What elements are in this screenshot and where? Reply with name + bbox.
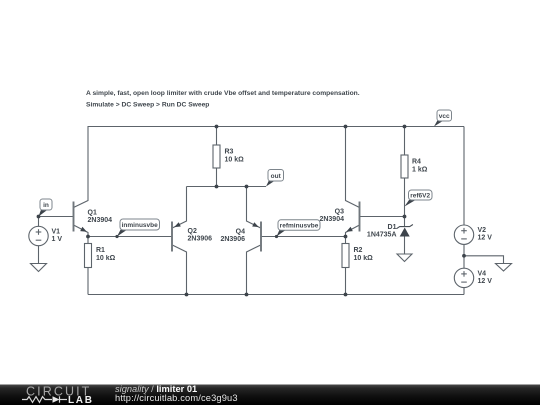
voltage source V4 (454, 268, 473, 287)
wire mid supply to ground (464, 256, 504, 264)
wire V2 top drop (463, 127, 465, 226)
wire Q4 collector (247, 245, 261, 294)
node R3 bottom rail (215, 185, 219, 189)
svg-text:2N3904: 2N3904 (319, 216, 344, 223)
node Q4 emitter rail (245, 185, 249, 189)
wire V1 bottom (38, 246, 40, 264)
svg-text:Simulate > DC Sweep > Run DC S: Simulate > DC Sweep > Run DC Sweep (86, 102, 209, 109)
svg-text:LAB: LAB (68, 395, 94, 405)
wire bottom rail (88, 294, 464, 296)
transistor Q3 (346, 202, 359, 232)
transistor Q2 (172, 222, 181, 252)
svg-text:out: out (271, 173, 282, 180)
node label out (266, 170, 284, 187)
voltage source V1 (29, 226, 48, 245)
label R3 10 kOhm (225, 149, 245, 164)
node inminusvbe attach (115, 235, 118, 238)
svg-text:10 kΩ: 10 kΩ (225, 157, 245, 164)
svg-text:R2: R2 (354, 247, 363, 254)
wire R1 top (87, 237, 89, 244)
node ref6V2 / D1 (403, 215, 407, 219)
svg-text:2N3904: 2N3904 (88, 217, 113, 224)
wire Q3 base (360, 216, 405, 218)
label R1 10 kOhm (96, 247, 116, 262)
node Q3 emitter / R2 (344, 235, 348, 239)
wire Q4 base to Q3 emitter node (261, 236, 346, 238)
svg-text:http://circuitlab.com/ce3g9u3: http://circuitlab.com/ce3g9u3 (115, 393, 238, 403)
node label in (39, 199, 53, 217)
node Q3 collector top (344, 125, 348, 129)
svg-text:Q3: Q3 (335, 209, 344, 216)
node Q1 emitter / R1 (86, 235, 90, 239)
svg-text:Q1: Q1 (88, 210, 97, 217)
svg-text:12 V: 12 V (478, 235, 493, 242)
node in junction (37, 215, 41, 219)
resistor R3 (213, 145, 220, 168)
resistor R2 (342, 244, 349, 268)
node label inminusvbe (117, 219, 160, 237)
label Q1 2N3904 (88, 210, 113, 224)
voltage source V2 (454, 225, 473, 244)
svg-text:12 V: 12 V (478, 278, 493, 285)
wire Q2 emitter (173, 187, 187, 228)
svg-text:2N3906: 2N3906 (220, 236, 245, 243)
svg-text:R4: R4 (412, 159, 421, 166)
wire Q1 emitter to node (74, 225, 89, 237)
footer bar (0, 385, 540, 405)
wire D1 anode to ground (404, 237, 406, 255)
node label vcc (434, 110, 452, 127)
node V2 V4 midpoint (462, 254, 466, 258)
label V4 12 V (478, 271, 493, 286)
wire out rail (187, 186, 267, 188)
transistor Q4 (252, 222, 261, 252)
wire R3 top (216, 127, 218, 146)
wire node inminusvbe row (88, 236, 172, 238)
svg-text:V2: V2 (478, 227, 487, 234)
svg-text:D1: D1 (388, 224, 397, 231)
label Q3 2N3904 (319, 209, 344, 223)
node R4 top (403, 125, 407, 129)
logo resistor squiggle and diode (22, 396, 67, 402)
node R2 bottom rail (344, 293, 348, 297)
label V2 12 V (478, 227, 493, 242)
node refminusvbe attach (275, 235, 278, 238)
wire D1 cathode to node (404, 217, 406, 227)
svg-text:1 V: 1 V (52, 236, 63, 243)
svg-text:1N4735A: 1N4735A (367, 232, 397, 239)
zener diode D1 (397, 225, 413, 237)
node label ref6V2 (405, 190, 433, 207)
node label refminusvbe (277, 220, 321, 237)
svg-text:2N3906: 2N3906 (188, 236, 213, 243)
wire Q2 collector (173, 245, 187, 294)
svg-text:A simple, fast, open loop limi: A simple, fast, open loop limiter with c… (86, 90, 360, 97)
wire R2 top (345, 237, 347, 244)
svg-text:refminusvbe: refminusvbe (280, 223, 319, 230)
svg-text:inminusvbe: inminusvbe (122, 222, 159, 229)
wire top rail vcc net (88, 126, 465, 128)
transistor Q1 (74, 202, 87, 232)
wire R4 top (404, 127, 406, 156)
svg-text:Q4: Q4 (236, 229, 245, 236)
resistor R1 (85, 244, 92, 268)
wire Q3 collector (346, 127, 360, 208)
wire R3 bottom (216, 168, 218, 187)
wire Q1 collector (74, 127, 89, 208)
wire V2 to V4 (463, 244, 465, 268)
label Q2 2N3906 (188, 228, 213, 243)
wire Q4 emitter (247, 187, 261, 228)
label Q4 2N3906 (220, 229, 245, 244)
svg-text:R1: R1 (96, 247, 105, 254)
wire V1 top (38, 217, 40, 227)
wire V4 bottom (463, 288, 465, 295)
svg-text:vcc: vcc (439, 113, 450, 120)
label R2 10 kOhm (354, 247, 374, 262)
label R4 1 kOhm (412, 159, 428, 174)
svg-text:10 kΩ: 10 kΩ (354, 255, 374, 262)
svg-text:ref6V2: ref6V2 (410, 193, 430, 200)
ground below D1 (397, 254, 412, 262)
svg-text:R3: R3 (225, 149, 234, 156)
svg-text:V1: V1 (52, 229, 61, 236)
node Q2 collector rail (185, 293, 189, 297)
junction node dots (37, 125, 466, 297)
node R3 top (215, 125, 219, 129)
node Q4 collector rail (245, 293, 249, 297)
svg-text:Q2: Q2 (188, 228, 197, 235)
wire Q1 base (39, 216, 74, 218)
logo diode triangle (53, 396, 60, 403)
wire R1 bottom (87, 268, 89, 295)
ground below V1 (31, 264, 47, 272)
resistor R4 (401, 155, 408, 178)
svg-text:1 kΩ: 1 kΩ (412, 167, 428, 174)
wire Q3 emitter to node (346, 225, 360, 237)
wire R2 bottom (345, 268, 347, 295)
wire R4 bottom to node ref6V2 (404, 178, 406, 217)
svg-text:in: in (43, 202, 49, 209)
svg-text:10 kΩ: 10 kΩ (96, 255, 116, 262)
label D1 1N4735A (367, 224, 397, 239)
label V1 1 V (52, 229, 63, 244)
ground supply midpoint (496, 264, 512, 272)
svg-text:V4: V4 (478, 271, 487, 278)
